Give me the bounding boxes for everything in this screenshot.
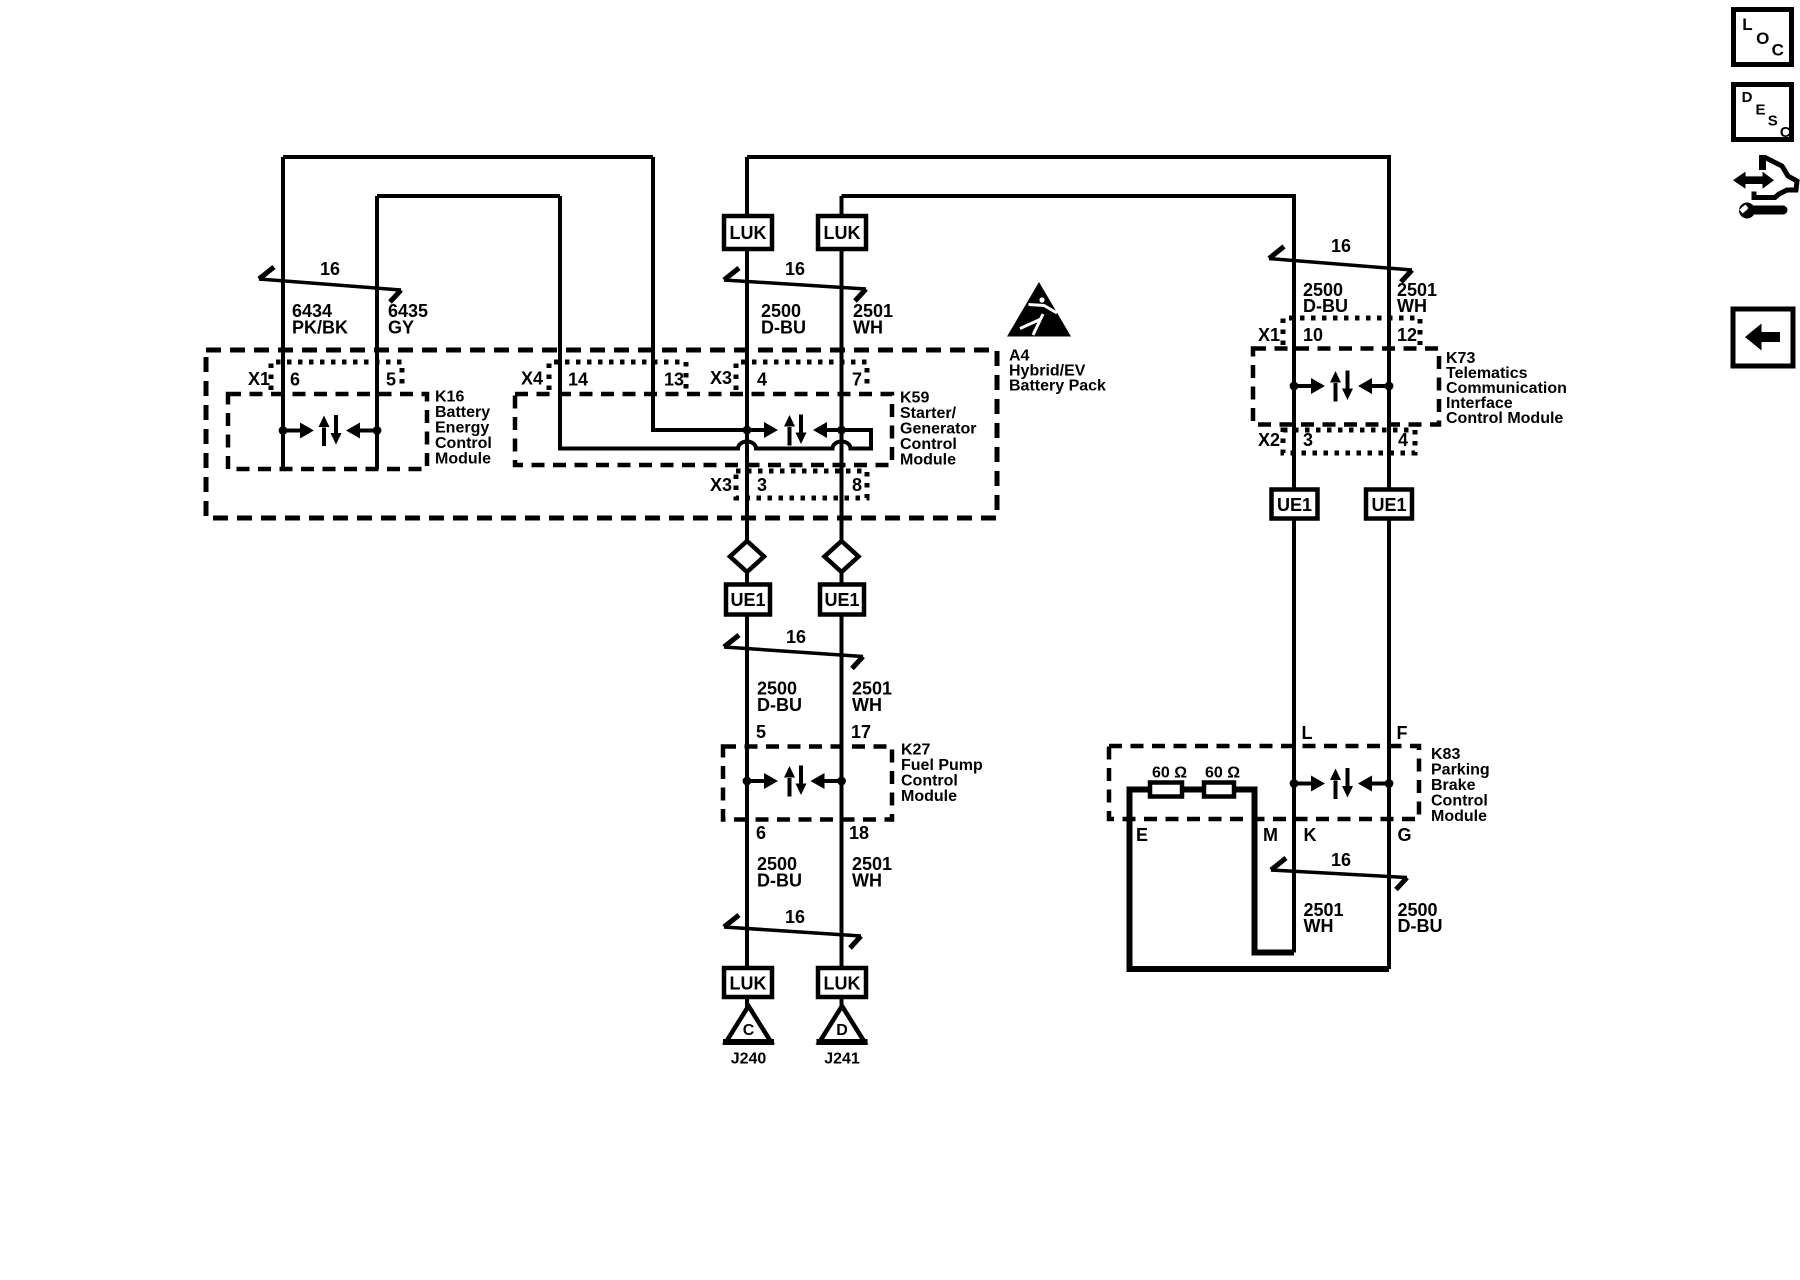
wire 6434 PK/BK vertical	[281, 157, 285, 469]
svg-text:Battery Pack: Battery Pack	[1009, 378, 1106, 395]
svg-text:L: L	[1302, 723, 1313, 743]
K73 inner dashed box	[1253, 349, 1439, 425]
UE1 takeout box right 2	[1366, 490, 1412, 519]
svg-text:LUK: LUK	[730, 223, 767, 243]
svg-text:18: 18	[849, 823, 869, 843]
svg-text:Control: Control	[900, 436, 957, 453]
wire between resistors	[1182, 787, 1204, 793]
wire 2501 WH center below LUK	[840, 249, 844, 541]
label 2501 WH (lower)	[852, 854, 892, 891]
label 2500 D-BU (mid)	[757, 679, 802, 716]
wire pin13 vertical and into K59 arrow	[653, 157, 764, 430]
svg-text:D: D	[836, 1022, 848, 1039]
svg-text:6: 6	[290, 370, 300, 390]
svg-text:WH: WH	[1304, 916, 1334, 936]
svg-text:16: 16	[1331, 236, 1351, 256]
warning triangle A4	[1007, 282, 1071, 337]
svg-text:O: O	[1756, 29, 1769, 48]
label K73 Telematics Communication Interface Control Module	[1446, 350, 1567, 427]
DESC icon box	[1734, 85, 1792, 141]
svg-text:E: E	[1136, 825, 1148, 845]
wire K73 pin3 to K83 pin L/K	[1292, 519, 1296, 953]
UE1 takeout box center 1	[726, 585, 770, 615]
wire 2501 WH stub above LUK	[840, 196, 844, 217]
connector strip X3 top	[736, 362, 867, 390]
label 2500 D-BU (lower)	[757, 854, 802, 891]
wire gauge marker 16 (K16 top)	[259, 259, 401, 302]
connector view icon (arrow, vehicle outline, wrench)	[1733, 155, 1797, 219]
svg-text:LUK: LUK	[730, 974, 767, 994]
svg-text:G: G	[1398, 825, 1412, 845]
wire 2500 D-BU top run to K73 pin 12	[747, 157, 1389, 490]
svg-text:13: 13	[664, 370, 684, 390]
label 6435 GY	[388, 301, 428, 338]
svg-text:F: F	[1397, 723, 1408, 743]
splice diamond 2501	[825, 541, 859, 572]
svg-text:K16: K16	[435, 389, 464, 406]
label K16 Battery Energy Control Module	[435, 389, 492, 468]
svg-text:X4: X4	[521, 369, 543, 389]
svg-text:Control: Control	[901, 773, 958, 790]
svg-text:C: C	[1780, 124, 1791, 141]
connector strip X3 bottom	[736, 471, 867, 498]
svg-text:D-BU: D-BU	[761, 318, 806, 338]
svg-text:6: 6	[756, 823, 766, 843]
LUK fuse box top left	[724, 216, 772, 249]
svg-text:UE1: UE1	[1371, 495, 1406, 515]
connector strip X4	[549, 362, 686, 390]
wire resistor to pin M and down to pin K leg	[1234, 790, 1294, 953]
LUK fuse box bottom left	[724, 968, 772, 997]
label K27 Fuel Pump Control Module	[901, 742, 983, 806]
svg-text:14: 14	[568, 370, 588, 390]
svg-text:D-BU: D-BU	[1303, 296, 1348, 316]
resistor R2 60 ohm	[1204, 783, 1234, 797]
svg-text:3: 3	[1303, 430, 1313, 450]
svg-text:Module: Module	[900, 452, 956, 469]
label 2500 D-BU (K83)	[1398, 900, 1443, 936]
svg-text:16: 16	[785, 907, 805, 927]
label K83 Parking Brake Control Module	[1431, 746, 1490, 825]
back arrow icon box	[1733, 309, 1793, 366]
wire gauge marker 16 (above LUK bottom)	[724, 907, 861, 948]
svg-text:Fuel Pump: Fuel Pump	[901, 757, 983, 774]
K83 dashed box	[1109, 746, 1419, 819]
svg-text:Battery: Battery	[435, 404, 490, 421]
svg-text:E: E	[1755, 101, 1765, 118]
ground triangle D	[817, 1006, 868, 1042]
wire gauge marker 16 (below UE1)	[724, 627, 863, 669]
svg-text:PK/BK: PK/BK	[292, 318, 348, 338]
svg-text:Module: Module	[901, 788, 957, 805]
label 2501 WH (mid)	[852, 679, 892, 716]
svg-text:X1: X1	[248, 369, 270, 389]
svg-text:Module: Module	[1431, 808, 1487, 825]
wire 6435 GY vertical	[375, 196, 379, 469]
label 2501 WH (K83)	[1304, 900, 1344, 936]
svg-text:16: 16	[1331, 850, 1351, 870]
svg-text:4: 4	[757, 370, 767, 390]
svg-text:K83: K83	[1431, 746, 1460, 763]
svg-text:Energy: Energy	[435, 420, 489, 437]
svg-text:7: 7	[852, 370, 862, 390]
svg-text:Control: Control	[435, 435, 492, 452]
svg-text:Parking: Parking	[1431, 762, 1490, 779]
svg-text:J241: J241	[824, 1051, 860, 1068]
svg-text:UE1: UE1	[730, 590, 765, 610]
svg-text:60 Ω: 60 Ω	[1205, 765, 1240, 782]
svg-text:WH: WH	[853, 318, 883, 338]
A4 Hybrid/EV Battery Pack outer dashed box	[206, 350, 997, 518]
svg-text:12: 12	[1397, 325, 1417, 345]
UE1 takeout box right 1	[1272, 490, 1318, 519]
K16 bus arrows	[279, 415, 382, 446]
svg-text:M: M	[1263, 825, 1278, 845]
label 2501 WH (right top)	[1397, 280, 1437, 316]
K73 bus arrows	[1290, 371, 1394, 402]
svg-text:LUK: LUK	[824, 974, 861, 994]
wire gauge marker 16 (center top)	[724, 259, 866, 301]
svg-text:L: L	[1742, 15, 1752, 34]
wire K73 pin4 to K83 pin F/G	[1387, 519, 1391, 970]
K27 bus arrows	[743, 766, 846, 797]
K83 terminating resistor loop wiring	[1130, 790, 1390, 970]
wire top horizontal 6434 to pin13	[283, 155, 653, 159]
svg-text:17: 17	[851, 722, 871, 742]
wire 2501 UE1 through K27 to LUK	[840, 615, 844, 969]
connector strip X1 (K73)	[1283, 318, 1420, 345]
svg-text:Brake: Brake	[1431, 777, 1476, 794]
svg-text:8: 8	[852, 475, 862, 495]
svg-text:D-BU: D-BU	[1398, 916, 1443, 936]
svg-text:5: 5	[756, 722, 766, 742]
svg-text:WH: WH	[852, 695, 882, 715]
wire pin14 vertical with hops to K59 arrow	[560, 196, 871, 449]
wire gauge marker 16 (right top)	[1269, 236, 1412, 282]
K83 bus arrows	[1290, 768, 1394, 799]
splice diamond 2500	[730, 541, 764, 572]
svg-text:UE1: UE1	[824, 590, 859, 610]
wire 2500 D-BU stub above LUK	[745, 157, 749, 217]
svg-text:K27: K27	[901, 742, 930, 759]
svg-text:LUK: LUK	[824, 223, 861, 243]
svg-text:X3: X3	[710, 368, 732, 388]
svg-text:Starter/: Starter/	[900, 405, 957, 422]
svg-text:16: 16	[786, 627, 806, 647]
wire 2501 LUK to ground triangle D	[840, 997, 844, 1007]
svg-text:X2: X2	[1258, 430, 1280, 450]
svg-text:UE1: UE1	[1277, 495, 1312, 515]
label 2500 D-BU (center top)	[761, 301, 806, 338]
wire 2500 diamond to UE1	[745, 572, 749, 585]
svg-text:3: 3	[757, 475, 767, 495]
K27 dashed box	[723, 747, 892, 820]
svg-text:60 Ω: 60 Ω	[1152, 765, 1187, 782]
svg-text:D: D	[1742, 89, 1753, 106]
svg-text:K: K	[1304, 825, 1317, 845]
svg-text:Control: Control	[1431, 793, 1488, 810]
svg-text:D-BU: D-BU	[757, 695, 802, 715]
connector strip X1 (K16)	[271, 362, 402, 390]
LOC icon box	[1734, 10, 1792, 65]
resistor R1 60 ohm	[1150, 783, 1182, 797]
svg-text:D-BU: D-BU	[757, 871, 802, 891]
svg-text:J240: J240	[731, 1051, 767, 1068]
K16 inner dashed box	[228, 394, 427, 469]
svg-text:Module: Module	[435, 451, 491, 468]
wire gauge marker 16 (K83)	[1271, 850, 1407, 890]
svg-text:4: 4	[1398, 430, 1408, 450]
svg-text:C: C	[743, 1022, 755, 1039]
svg-text:5: 5	[386, 370, 396, 390]
label 2500 D-BU (right top)	[1303, 280, 1348, 316]
ground triangle C	[723, 1006, 774, 1042]
label A4 Hybrid/EV Battery Pack	[1009, 348, 1106, 395]
label K59 Starter/Generator Control Module	[900, 390, 976, 469]
label 6434 PK/BK	[292, 301, 348, 338]
svg-text:16: 16	[785, 259, 805, 279]
UE1 takeout box center 2	[820, 585, 864, 615]
svg-text:GY: GY	[388, 318, 414, 338]
wire top horizontal 6435 to pin14	[377, 194, 560, 198]
svg-text:S: S	[1768, 113, 1778, 130]
svg-text:Generator: Generator	[900, 421, 976, 438]
wire 2501 WH top run to K73 pin 10	[842, 196, 1295, 490]
svg-text:X1: X1	[1258, 325, 1280, 345]
svg-text:WH: WH	[852, 871, 882, 891]
svg-text:X3: X3	[710, 475, 732, 495]
K59 inner dashed box	[515, 394, 892, 465]
svg-text:Control Module: Control Module	[1446, 410, 1563, 427]
wire 2500 UE1 through K27 to LUK	[745, 615, 749, 969]
wire 2500 LUK to ground triangle C	[745, 997, 749, 1007]
svg-text:16: 16	[320, 259, 340, 279]
svg-text:WH: WH	[1397, 296, 1427, 316]
wire 2501 diamond to UE1	[840, 572, 844, 585]
LUK fuse box bottom right	[818, 968, 866, 997]
connector strip X2 (K73)	[1283, 430, 1415, 453]
label 2501 WH (center top)	[853, 301, 893, 338]
LUK fuse box top right	[818, 216, 866, 249]
svg-text:C: C	[1772, 40, 1784, 59]
wire 2500 D-BU center below LUK	[745, 249, 749, 541]
K59 bus arrows	[743, 415, 846, 446]
svg-text:10: 10	[1303, 325, 1323, 345]
svg-text:K59: K59	[900, 390, 929, 407]
